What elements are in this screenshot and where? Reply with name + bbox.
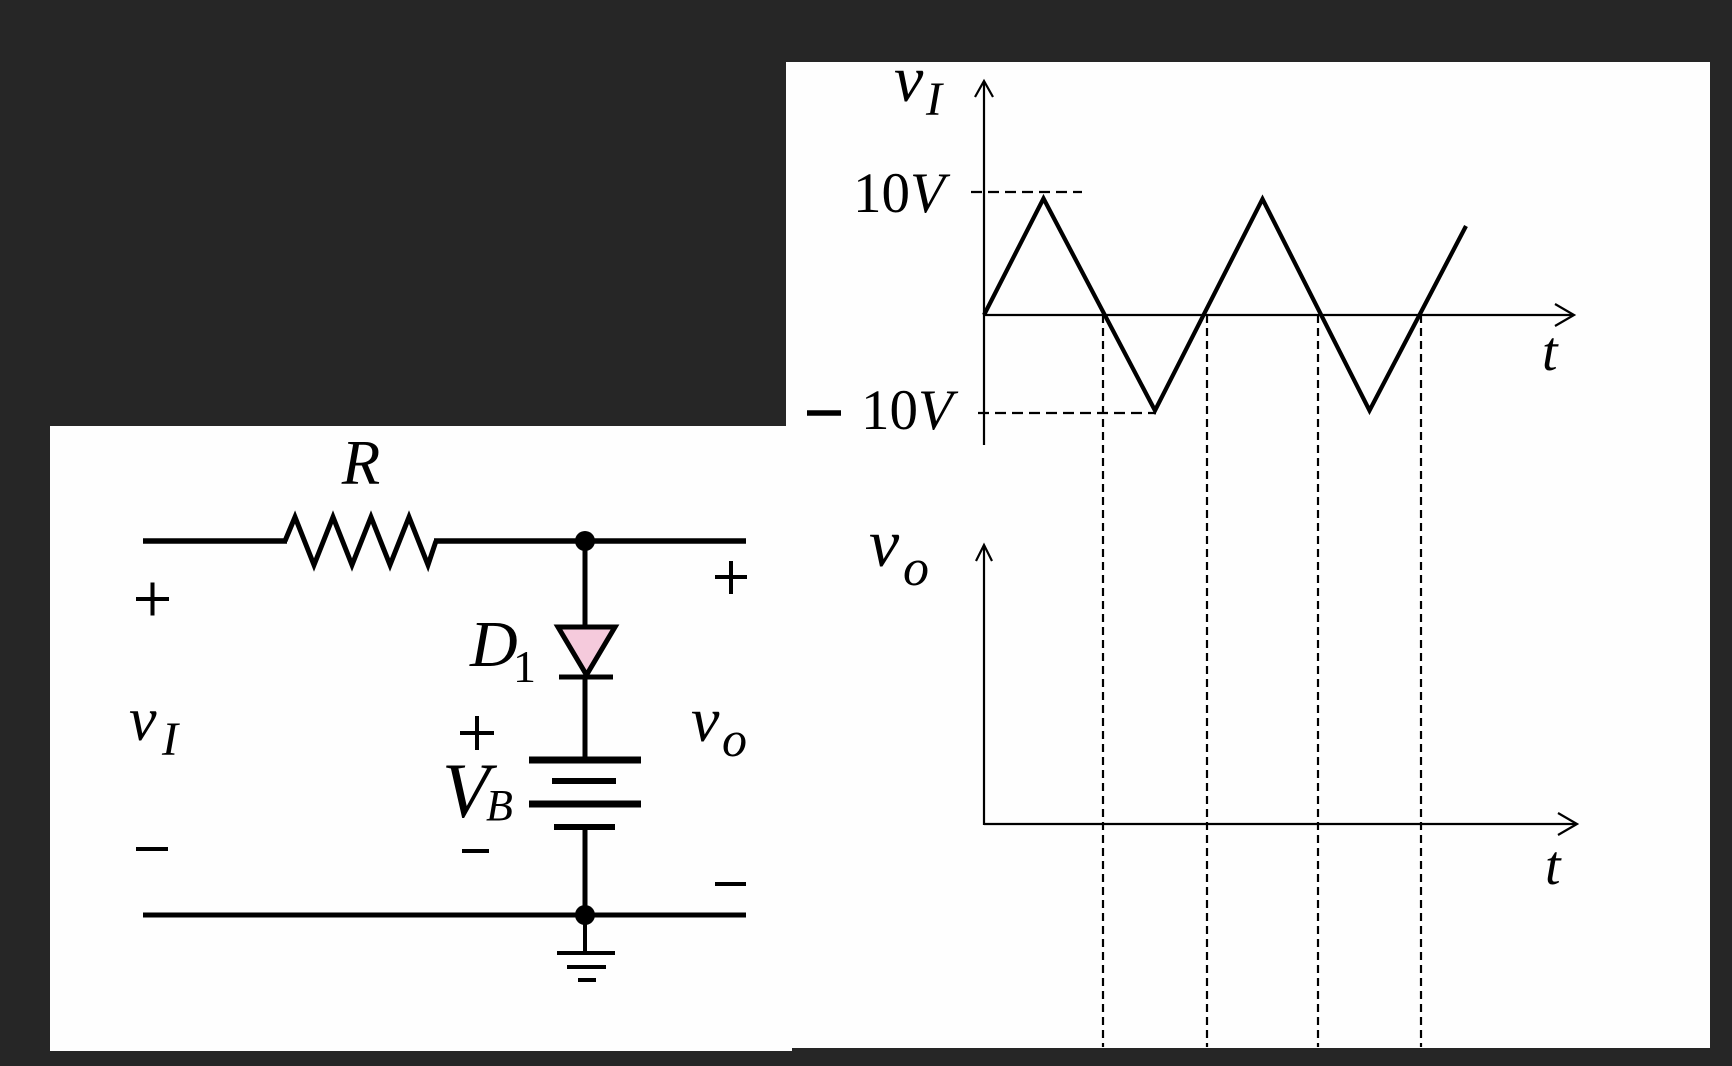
wire: input top-left to resistor: [143, 538, 287, 544]
ground symbol: [557, 953, 615, 980]
node: top junction dot: [575, 531, 595, 551]
wire: battery bottom to ground rail: [583, 827, 588, 915]
wire: junction down to diode anode: [583, 541, 588, 630]
label - (VB polarity): [462, 849, 489, 853]
svg-text:B: B: [486, 781, 513, 830]
battery VB plate 1 (long): [529, 757, 641, 764]
svg-text:R: R: [341, 428, 380, 498]
svg-text:t: t: [1545, 835, 1562, 897]
wire: bottom rail: [143, 913, 746, 918]
dashed vertical line 3: [1317, 315, 1319, 1047]
dashed level line -10V: [978, 412, 1156, 414]
label - (vo polarity): [715, 882, 746, 886]
right white panel (graphs): [786, 62, 1710, 1048]
svg-text:v: v: [691, 684, 720, 755]
left white panel (circuit): [50, 426, 792, 1051]
label + (vo polarity): [715, 561, 747, 594]
label -10V: [807, 410, 841, 416]
node: bottom junction dot: [575, 905, 595, 925]
svg-text:D: D: [469, 608, 518, 681]
axis: t horizontal (graph 2): [984, 823, 1576, 825]
label - (vI polarity): [136, 847, 168, 851]
wire: diode cathode to battery top: [583, 677, 588, 758]
battery VB plate 3 (long): [529, 801, 641, 808]
dashed level line +10V: [971, 191, 1082, 193]
axis: vo vertical: [983, 545, 985, 825]
axis: vI vertical: [983, 82, 985, 445]
svg-text:t: t: [1542, 321, 1559, 383]
label + (VB polarity): [460, 716, 494, 750]
resistor R: [285, 517, 436, 565]
axis: t horizontal (graph 1): [984, 314, 1573, 316]
wire: resistor to output (top): [434, 538, 746, 544]
svg-text:v: v: [894, 43, 924, 116]
label + (vI polarity): [136, 583, 169, 616]
waveform: triangle wave vI: [984, 199, 1466, 411]
svg-text:I: I: [925, 73, 944, 126]
svg-text:10V: 10V: [853, 162, 951, 225]
wire: junction to ground: [583, 915, 587, 951]
battery VB plate 4 (short): [554, 824, 615, 830]
svg-text:o: o: [903, 540, 929, 597]
svg-text:I: I: [161, 713, 180, 766]
svg-text:10V: 10V: [861, 379, 959, 442]
dashed vertical line 4: [1420, 315, 1422, 1047]
svg-text:v: v: [129, 686, 157, 754]
svg-text:1: 1: [513, 641, 536, 692]
dashed vertical line 2: [1206, 315, 1208, 1047]
dashed vertical line 1: [1102, 315, 1104, 1047]
diode D1 cathode bar: [559, 675, 613, 680]
svg-text:o: o: [722, 711, 747, 767]
battery VB plate 2 (short): [552, 778, 616, 784]
svg-text:v: v: [869, 505, 900, 581]
diode D1 (triangle, pink fill): [558, 627, 615, 675]
